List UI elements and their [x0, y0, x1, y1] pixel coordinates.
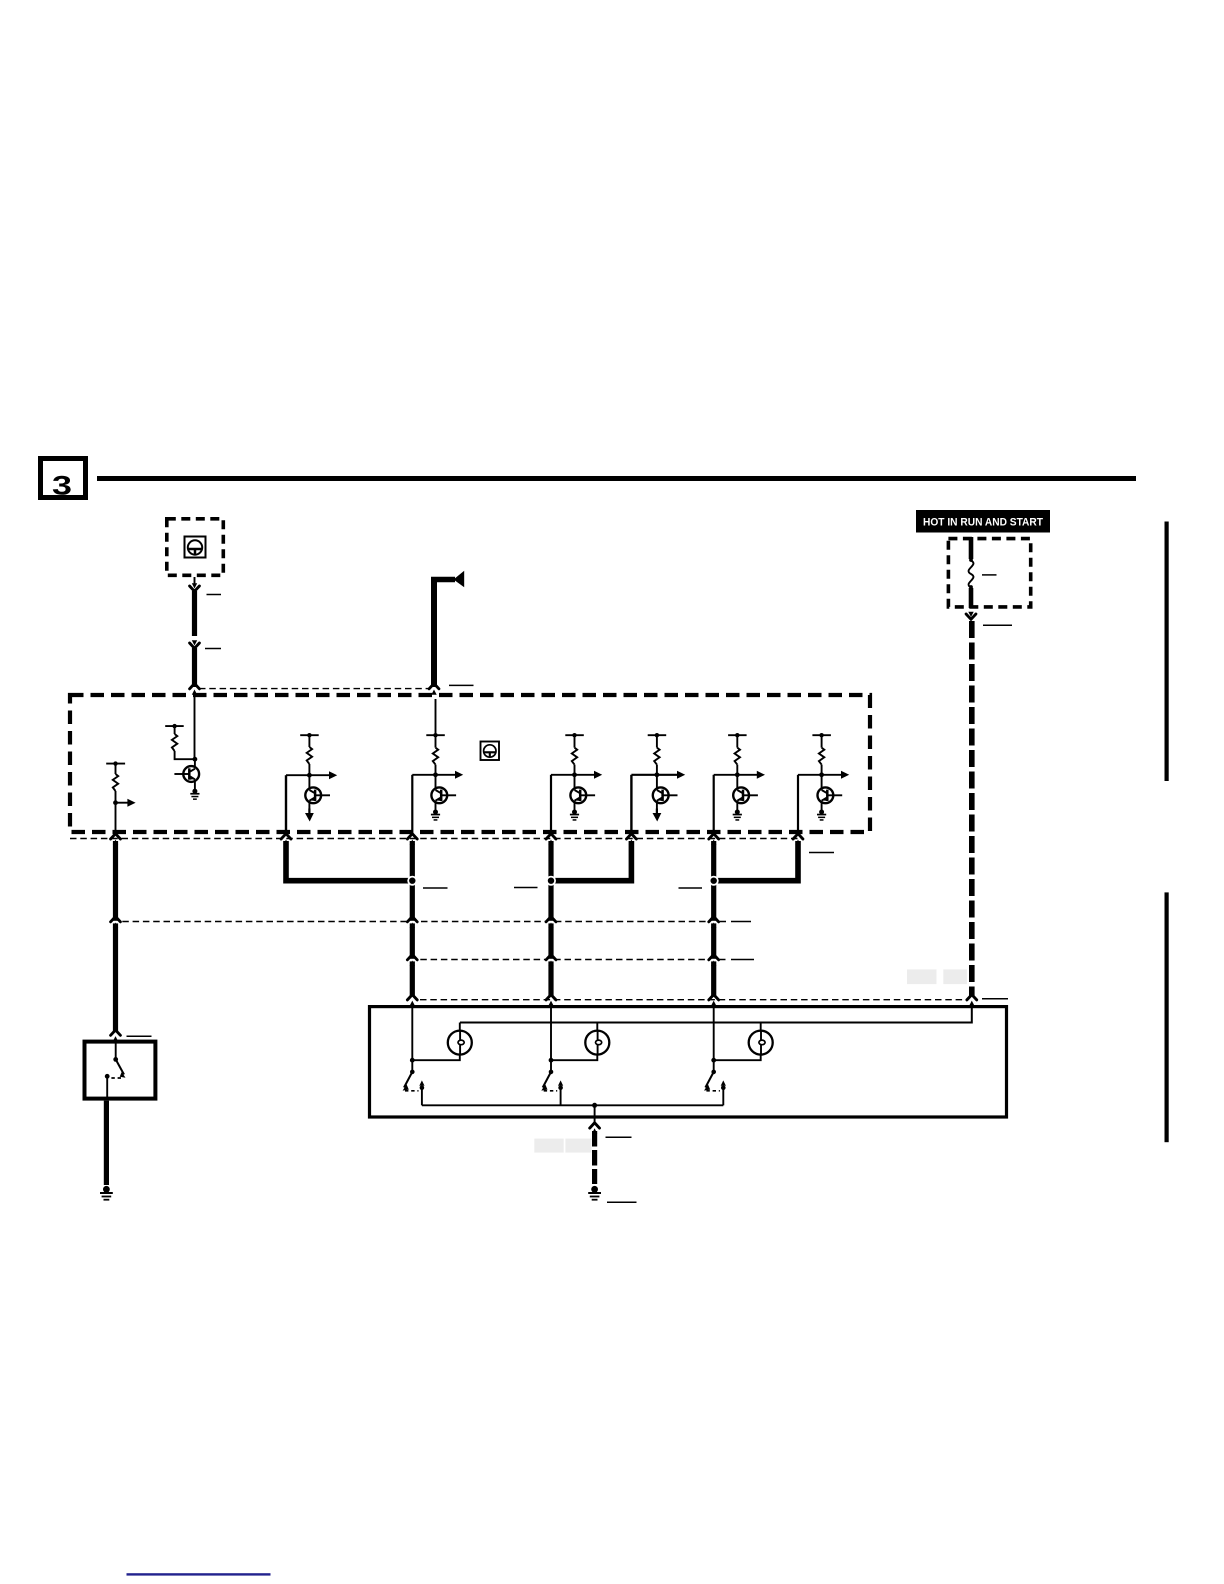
HOT IN RUN AND START label	[916, 510, 1050, 533]
label tick below lamp box	[606, 1136, 632, 1138]
wire from rail through box bottom	[594, 1105, 596, 1122]
label tick at end of plane 3	[982, 998, 1008, 1000]
harness wire from cluster pin 7 to splice bus 3	[714, 841, 798, 881]
right margin section bar lower	[1165, 892, 1169, 1142]
wire label tick lower	[205, 648, 221, 650]
cluster exit connector at wire 3	[407, 834, 417, 845]
hot feed stub inside lamp box	[460, 1005, 972, 1023]
wire label tick upper	[207, 594, 222, 596]
connector at switch unit entry	[111, 1030, 121, 1041]
switch SW3 in lamp box	[704, 1070, 726, 1106]
connector fork of hot feed at lamp box	[967, 995, 977, 1006]
label tick near supply wire entry	[449, 684, 474, 686]
connector C1 on lamp wire 3	[709, 917, 719, 928]
splice S1	[407, 876, 417, 886]
cluster exit connector at wire 1	[111, 834, 121, 845]
connector C1 on lamp wire 2	[546, 917, 556, 928]
harness wire from cluster pin 5 to splice bus 2	[551, 841, 631, 881]
connector plane dashed line (top)	[199, 688, 429, 690]
connector C1 on wire to switch unit	[111, 917, 121, 928]
cluster wire from steering input down to driver stage	[194, 693, 196, 759]
label tick at switch unit entry	[127, 1035, 152, 1037]
driver cell 6: resistor R6, transistor T6, open output	[631, 733, 685, 835]
switch SW1 in lamp box	[403, 1070, 425, 1106]
open emitter arrow of T6	[653, 809, 662, 822]
wire label tick below fuse box	[983, 624, 1012, 626]
connector below lamp box	[590, 1123, 600, 1134]
connector pair on wire (lower)	[190, 640, 200, 648]
connector C1 on lamp wire 1	[407, 917, 417, 928]
lamp box entry connector wire 1	[407, 995, 417, 1006]
cluster exit connector at wire 5	[627, 834, 637, 845]
rail junction dot	[592, 1103, 597, 1108]
label tick left of splice S2	[514, 887, 538, 889]
connector fork of supply wire into cluster box	[429, 684, 439, 695]
fuse label tick	[982, 574, 997, 576]
footer link line	[127, 1573, 271, 1575]
connector C2 on lamp wire 2	[546, 955, 556, 966]
driver cell 3: resistor R3, transistor T3, open output	[286, 733, 337, 835]
ground of transistor T7	[733, 810, 742, 821]
connector below fuse box	[966, 612, 976, 620]
label tick right of splice S1	[423, 887, 448, 889]
ground of transistor T2	[190, 789, 199, 800]
connector plane dashed line (below cluster)	[70, 838, 798, 840]
connector pair on wire (upper)	[190, 583, 200, 591]
dashed ground wire below lamp box	[592, 1131, 597, 1184]
open emitter arrow of T3	[305, 809, 314, 822]
label tick left of splice S3	[679, 887, 703, 889]
svg-text:3: 3	[52, 471, 72, 501]
driver cell 7: resistor R7, transistor T7, ground	[714, 733, 765, 835]
connector plane dashed line 2	[410, 959, 726, 961]
lamp L1	[410, 1005, 472, 1072]
gray redacted label below lamp box	[534, 1139, 591, 1153]
lamp L3	[711, 1005, 772, 1072]
lamp box entry connector wire 2	[546, 995, 556, 1006]
switch SW4 inside switch unit	[105, 1043, 126, 1099]
header rule line	[97, 476, 1136, 481]
ground wire below switch unit	[104, 1101, 109, 1185]
driver cell 8: resistor R8, transistor T8, ground	[798, 733, 849, 835]
connector plane dashed line 3 (lamp box)	[420, 999, 967, 1001]
cluster exit connector at wire 7	[793, 834, 803, 845]
harness wire from cluster pin 2 to splice bus 1	[286, 841, 412, 881]
ground G1 (below switch unit)	[100, 1186, 113, 1201]
harness wire from cluster pin 1 down to switch unit	[113, 841, 118, 1031]
instrument cluster dashed box	[70, 695, 870, 832]
right margin section bar upper	[1165, 522, 1169, 782]
dashed box: steering column switch (top left)	[167, 519, 224, 576]
cluster exit connector at wire 4	[546, 834, 556, 845]
driver cell 5: resistor R5, transistor T5, ground	[551, 733, 602, 835]
ground of transistor T4	[431, 810, 440, 821]
lamp unit box	[370, 1007, 1007, 1117]
driver cell 4: resistor R4, transistor T4, ground	[412, 699, 463, 835]
cluster exit connector at wire 6	[709, 834, 719, 845]
label tick at end of plane 2	[731, 959, 754, 961]
switched ground rail in lamp box	[422, 1104, 723, 1106]
steering wheel icon in dashed box	[185, 537, 206, 558]
lamp L2	[549, 1005, 610, 1072]
connector C2 on lamp wire 1	[407, 955, 417, 966]
dashed box: fuse carrier	[948, 539, 1030, 607]
connector C2 on lamp wire 3	[709, 955, 719, 966]
lamp box entry connector wire 3	[709, 995, 719, 1006]
driver cell 2: resistor R2 and transistor T2 with ground	[165, 724, 199, 790]
splice S3	[709, 876, 719, 886]
ground G2 (below lamp box)	[588, 1186, 601, 1201]
fuse element	[969, 537, 974, 608]
connector plane dashed line 1	[112, 921, 726, 923]
dashed hot feed wire down to lamp unit box	[969, 621, 975, 996]
label tick at end of plane 1	[731, 921, 751, 923]
connector fork into cluster box	[190, 684, 200, 695]
switch unit box	[85, 1042, 156, 1099]
ground of transistor T8	[817, 810, 826, 821]
wire from steering column switch down to cluster	[194, 577, 196, 687]
svg-text:HOT IN RUN AND START: HOT IN RUN AND START	[923, 517, 1043, 529]
heavy supply wire with off-page arrow (top middle)	[431, 571, 464, 687]
steering wheel icon inside cluster	[481, 742, 500, 761]
driver cell 1: resistor R1 with output arrow	[106, 761, 135, 835]
cluster exit connector at wire 2	[281, 834, 291, 845]
harness wire from cluster pin 4 down to lamp box	[548, 841, 553, 996]
gray redacted label near hot feed	[907, 969, 967, 984]
switch SW2 in lamp box	[541, 1070, 563, 1106]
label tick right of wire 7	[809, 852, 834, 854]
splice S2	[546, 876, 556, 886]
header index box "3"	[41, 459, 86, 501]
label tick right of ground G2	[607, 1201, 637, 1203]
harness wire from cluster pin 6 down to lamp box	[711, 841, 716, 996]
ground of transistor T5	[570, 810, 579, 821]
harness wire from cluster pin 3 down to lamp box	[410, 841, 415, 996]
